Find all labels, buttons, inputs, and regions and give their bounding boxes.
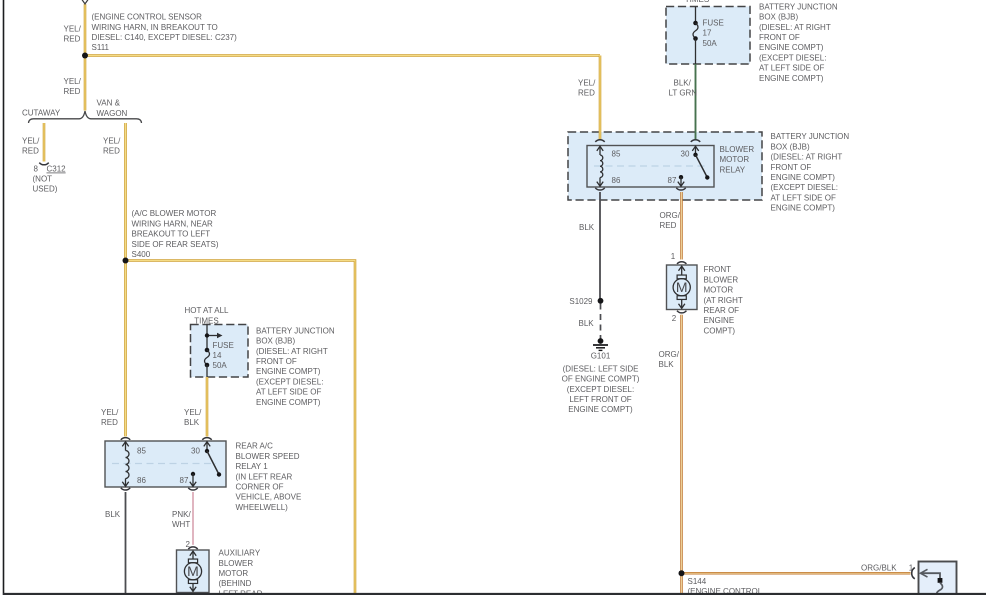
svg-text:RELAY 1: RELAY 1 [236, 462, 269, 471]
svg-text:YEL/: YEL/ [103, 136, 121, 145]
svg-text:2: 2 [672, 314, 677, 323]
wire ORG/BLK from S144 down off page [680, 573, 683, 593]
svg-text:BLOWER SPEED: BLOWER SPEED [236, 452, 300, 461]
svg-text:(NOT: (NOT [33, 174, 53, 183]
svg-text:BATTERY JUNCTION: BATTERY JUNCTION [256, 326, 335, 335]
svg-text:BLOWER: BLOWER [219, 559, 254, 568]
svg-text:YEL/: YEL/ [22, 136, 40, 145]
svg-text:(EXCEPT DIESEL:: (EXCEPT DIESEL: [759, 53, 826, 62]
front motor pin 1 cavity arc [677, 262, 686, 264]
svg-text:(A/C BLOWER MOTOR: (A/C BLOWER MOTOR [132, 209, 217, 218]
svg-text:(DIESEL: AT RIGHT: (DIESEL: AT RIGHT [771, 153, 843, 162]
wire ORG/BLK from S144 right to engine control module [682, 572, 911, 575]
relay pin 85 cavity arc [595, 140, 604, 142]
wire ORG/RED from relay pin 87 to front motor [680, 192, 683, 260]
svg-text:(DIESEL: AT RIGHT: (DIESEL: AT RIGHT [759, 23, 831, 32]
wire YEL/RED cutaway branch [43, 123, 46, 162]
connector C312 cavity arc [39, 163, 48, 165]
wire BLK/LT GRN from fuse 17 to relay pin 30 [695, 64, 697, 139]
svg-text:ENGINE COMPT): ENGINE COMPT) [256, 398, 321, 407]
svg-text:LT GRN: LT GRN [669, 89, 698, 98]
svg-text:RED: RED [64, 35, 81, 44]
wire YEL/RED down into relay pin 85 [599, 56, 602, 140]
svg-text:ORG/: ORG/ [660, 211, 681, 220]
aux motor pin 2 cavity arc [188, 547, 197, 549]
svg-text:LEFT FRONT OF: LEFT FRONT OF [569, 395, 631, 404]
splice S144 junction dot [679, 570, 685, 576]
svg-text:S1029: S1029 [569, 297, 593, 306]
svg-text:30: 30 [191, 447, 200, 456]
svg-text:BOX (BJB): BOX (BJB) [256, 337, 295, 346]
svg-text:SIDE OF REAR SEATS): SIDE OF REAR SEATS) [132, 240, 219, 249]
wire YEL/RED horizontal from S111 to blower motor relay [85, 54, 600, 57]
svg-text:RED: RED [22, 147, 39, 156]
svg-text:(IN LEFT REAR: (IN LEFT REAR [236, 472, 293, 481]
svg-text:COMPT): COMPT) [704, 326, 736, 335]
relay pin 30 cavity arc [691, 140, 700, 142]
svg-text:(AT RIGHT: (AT RIGHT [704, 296, 743, 305]
svg-text:OF ENGINE COMPT): OF ENGINE COMPT) [562, 375, 640, 384]
svg-text:PNK/: PNK/ [172, 510, 191, 519]
relay coil pin 85 to 86 [597, 146, 603, 151]
svg-text:YEL/: YEL/ [101, 408, 119, 417]
motor FRONT BLOWER MOTOR [667, 265, 698, 310]
wire BLK from rear relay pin 86 down [125, 492, 127, 593]
svg-text:AT LEFT SIDE OF: AT LEFT SIDE OF [759, 64, 824, 73]
off-page arrow at top of YEL/RED wire [81, 0, 89, 4]
rear relay pin 30 cavity arc [202, 438, 211, 440]
module pin 1 cavity arc [912, 568, 915, 579]
left border frame line [3, 0, 5, 595]
svg-text:RED: RED [103, 147, 120, 156]
svg-text:ENGINE COMPT): ENGINE COMPT) [771, 173, 836, 182]
svg-text:(EXCEPT DIESEL:: (EXCEPT DIESEL: [256, 377, 323, 386]
svg-text:17: 17 [703, 29, 712, 38]
svg-text:(DIESEL: AT RIGHT: (DIESEL: AT RIGHT [256, 347, 328, 356]
relay REAR A/C BLOWER SPEED RELAY 1 box [105, 441, 226, 487]
harness split bracket CUTAWAY / VAN & WAGON [29, 111, 142, 123]
svg-text:G101: G101 [591, 351, 611, 360]
svg-text:YEL/: YEL/ [64, 77, 82, 86]
svg-text:BREAKOUT TO LEFT: BREAKOUT TO LEFT [132, 230, 211, 239]
svg-text:85: 85 [612, 149, 621, 158]
fuse box BJB (fuse 17) dashed box [666, 7, 750, 65]
fuse box BJB (fuse 14) dashed box [191, 325, 249, 378]
svg-text:RED: RED [101, 418, 118, 427]
svg-text:ENGINE COMPT): ENGINE COMPT) [256, 367, 321, 376]
svg-text:85: 85 [137, 447, 146, 456]
svg-text:(EXCEPT DIESEL:: (EXCEPT DIESEL: [567, 385, 634, 394]
relay BLOWER MOTOR RELAY dashed box [568, 132, 762, 200]
dashed BLK wire S1029 to G101 [600, 304, 602, 340]
svg-text:REAR OF: REAR OF [704, 306, 740, 315]
svg-text:8: 8 [34, 165, 39, 174]
svg-text:TIMES: TIMES [685, 0, 709, 4]
svg-text:BOX (BJB): BOX (BJB) [759, 13, 798, 22]
svg-text:BATTERY JUNCTION: BATTERY JUNCTION [771, 132, 850, 141]
svg-text:ENGINE COMPT): ENGINE COMPT) [759, 74, 824, 83]
svg-text:ENGINE COMPT): ENGINE COMPT) [771, 204, 836, 213]
relay inner box [587, 146, 714, 188]
svg-text:87: 87 [668, 176, 677, 185]
wire YEL/RED van & wagon branch down to S400 [124, 123, 127, 261]
svg-text:S111: S111 [92, 43, 110, 52]
svg-text:ENGINE COMPT): ENGINE COMPT) [759, 43, 824, 52]
svg-text:VEHICLE, ABOVE: VEHICLE, ABOVE [236, 493, 302, 502]
motor AUXILIARY BLOWER MOTOR [177, 550, 210, 593]
rear relay pin 85 cavity arc [121, 438, 130, 440]
svg-text:BLK/: BLK/ [674, 79, 692, 88]
svg-text:30: 30 [681, 149, 690, 158]
svg-text:S400: S400 [132, 250, 151, 259]
svg-text:86: 86 [137, 476, 146, 485]
bottom border frame line [3, 593, 986, 595]
svg-text:BLK: BLK [579, 223, 595, 232]
svg-text:S144: S144 [688, 577, 707, 586]
svg-text:1: 1 [671, 252, 676, 261]
svg-text:RED: RED [64, 87, 81, 96]
relay 1 switch pin 30 to 87 [204, 442, 210, 447]
fuse 14 feed wire and tap arrow [206, 325, 208, 350]
splice S1029 junction dot [598, 298, 604, 304]
svg-text:(DIESEL: LEFT SIDE: (DIESEL: LEFT SIDE [563, 364, 639, 373]
svg-text:WIRING HARN, IN BREAKOUT TO: WIRING HARN, IN BREAKOUT TO [92, 23, 218, 32]
wire YEL/BLK from fuse 14 to rear relay pin 30 [206, 377, 209, 436]
relay pin 86 cavity arc [595, 188, 604, 190]
svg-text:FRONT: FRONT [704, 265, 732, 274]
svg-text:CUTAWAY: CUTAWAY [22, 109, 61, 118]
svg-text:HOT AT ALL: HOT AT ALL [184, 306, 229, 315]
svg-text:AT LEFT SIDE OF: AT LEFT SIDE OF [256, 388, 321, 397]
svg-text:CORNER OF: CORNER OF [236, 483, 284, 492]
wire YEL/RED vertical from top to splice S111 [84, 4, 87, 55]
svg-text:50A: 50A [213, 361, 228, 370]
fuse F17 element [695, 7, 697, 24]
svg-text:FRONT OF: FRONT OF [759, 33, 800, 42]
svg-text:FUSE: FUSE [703, 18, 724, 27]
svg-text:ORG/: ORG/ [659, 350, 680, 359]
svg-text:RED: RED [660, 221, 677, 230]
svg-text:C312: C312 [47, 165, 67, 174]
svg-text:WAGON: WAGON [97, 109, 128, 118]
svg-text:RELAY: RELAY [720, 165, 746, 174]
svg-text:USED): USED) [33, 185, 58, 194]
svg-text:BLK: BLK [579, 319, 595, 328]
svg-text:YEL/: YEL/ [578, 79, 596, 88]
wire ORG/BLK from front motor to S144 [680, 315, 683, 573]
relay internal dashed line [594, 165, 708, 167]
svg-text:MOTOR: MOTOR [219, 569, 249, 578]
wire YEL/RED from S400 down to rear relay pin 85 [124, 261, 127, 437]
svg-text:BLK: BLK [659, 360, 675, 369]
svg-text:REAR A/C: REAR A/C [236, 442, 274, 451]
svg-text:WHEELWELL): WHEELWELL) [236, 503, 289, 512]
box ENGINE CONTROL module [919, 562, 957, 595]
svg-text:50A: 50A [703, 39, 718, 48]
wire YEL/RED from S400 right then down off page [126, 261, 356, 594]
relay switch pin 30 to 87 [692, 146, 698, 151]
wire YEL/RED from S111 down to harness split [84, 56, 87, 111]
svg-text:RED: RED [578, 89, 595, 98]
svg-text:FUSE: FUSE [213, 341, 234, 350]
svg-text:(EXCEPT DIESEL:: (EXCEPT DIESEL: [771, 183, 838, 192]
wire BLK from relay pin 86 to S1029 [599, 192, 601, 301]
relay 1 internal dashed line [112, 463, 216, 465]
relay 1 coil pin 85 to 86 [122, 442, 128, 447]
svg-text:ENGINE: ENGINE [704, 316, 735, 325]
svg-text:BOX (BJB): BOX (BJB) [771, 142, 810, 151]
splice S111 junction dot [82, 53, 88, 59]
svg-text:AUXILIARY: AUXILIARY [219, 549, 261, 558]
svg-text:BATTERY JUNCTION: BATTERY JUNCTION [759, 2, 838, 11]
svg-text:YEL/: YEL/ [64, 24, 82, 33]
svg-text:M: M [676, 279, 688, 295]
svg-text:M: M [187, 563, 199, 579]
svg-text:WIRING HARN, NEAR: WIRING HARN, NEAR [132, 219, 214, 228]
svg-text:87: 87 [180, 476, 189, 485]
svg-text:(BEHIND: (BEHIND [219, 579, 252, 588]
relay pin 87 cavity arc [676, 188, 685, 190]
svg-text:AT LEFT SIDE OF: AT LEFT SIDE OF [771, 193, 836, 202]
svg-text:BLK: BLK [105, 510, 121, 519]
ground G101 symbol [598, 338, 604, 344]
svg-text:14: 14 [213, 351, 222, 360]
svg-text:BLOWER: BLOWER [704, 275, 739, 284]
svg-text:ENGINE COMPT): ENGINE COMPT) [568, 405, 633, 414]
svg-text:VAN &: VAN & [97, 99, 121, 108]
module internal wire with arrow and fuse element [921, 569, 928, 577]
svg-text:86: 86 [612, 176, 621, 185]
svg-text:BLOWER: BLOWER [720, 145, 755, 154]
rear relay pin 87 cavity arc [188, 488, 197, 490]
svg-text:YEL/: YEL/ [184, 408, 202, 417]
svg-text:FRONT OF: FRONT OF [256, 357, 297, 366]
svg-text:ORG/BLK: ORG/BLK [861, 563, 897, 572]
splice S400 junction dot [123, 258, 129, 264]
svg-text:FRONT OF: FRONT OF [771, 163, 812, 172]
svg-text:MOTOR: MOTOR [720, 155, 750, 164]
wire PNK/WHT from rear relay pin 87 to aux motor [192, 492, 194, 545]
front motor pin 2 cavity arc [677, 311, 686, 313]
svg-text:BLK: BLK [184, 418, 200, 427]
rear relay pin 86 cavity arc [121, 488, 130, 490]
svg-text:MOTOR: MOTOR [704, 286, 734, 295]
svg-text:WHT: WHT [172, 520, 190, 529]
svg-text:DIESEL: C140, EXCEPT DIESEL: C: DIESEL: C140, EXCEPT DIESEL: C237) [92, 33, 238, 42]
fuse F14 element [205, 348, 210, 353]
svg-text:(ENGINE CONTROL SENSOR: (ENGINE CONTROL SENSOR [92, 13, 203, 22]
